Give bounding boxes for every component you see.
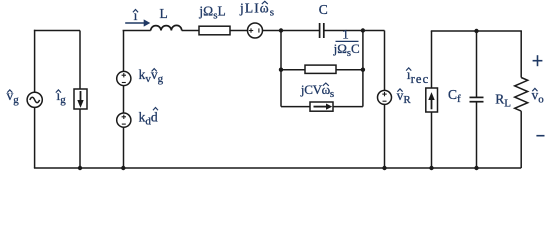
svg-text:Cf: Cf <box>448 87 461 105</box>
svg-text:1: 1 <box>342 27 349 42</box>
svg-text:C: C <box>319 2 328 17</box>
svg-text:L: L <box>160 6 168 21</box>
svg-text:kvvg: kvvg <box>139 67 164 85</box>
svg-text:RL: RL <box>495 92 511 110</box>
svg-text:jΩsC: jΩsC <box>333 41 360 59</box>
svg-text:jΩsL: jΩsL <box>198 3 225 21</box>
svg-text:jLIωs: jLIωs <box>239 1 274 19</box>
svg-text:jCVωs: jCVωs <box>300 82 334 100</box>
svg-text:kdd: kdd <box>139 109 158 127</box>
